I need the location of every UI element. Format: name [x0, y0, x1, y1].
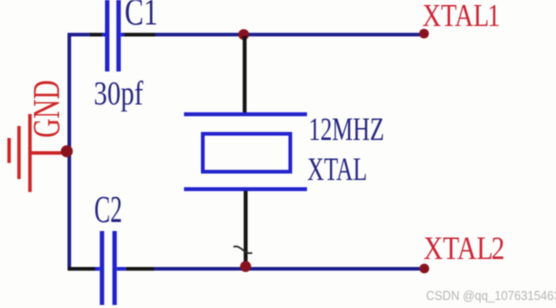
svg-text:12MHZ: 12MHZ: [309, 112, 385, 148]
capacitor C2 left plate: [100, 231, 104, 305]
ground symbol: short bar: [7, 138, 10, 163]
capacitor C1 left plate: [105, 0, 109, 72]
capacitor C2 right plate: [112, 231, 116, 305]
ground symbol: long bar: [28, 114, 32, 192]
pin stub blue right of C1 plate: [121, 33, 125, 37]
pin: C1 right pin (black): [125, 33, 156, 37]
svg-text:30pf: 30pf: [94, 74, 144, 112]
wire: top horizontal, corner to C1 left pin: [68, 33, 91, 37]
ground symbol: stem to wire: [29, 151, 67, 155]
pin stub blue left of C2 plate: [95, 267, 100, 271]
node: XTAL2 terminal dot: [419, 264, 429, 274]
crystal X1 bottom electrode plate: [184, 187, 307, 191]
pin stub blue right of C2 plate: [117, 267, 126, 271]
pin: C1 left pin (black): [90, 33, 103, 37]
pin: C2 right pin (black): [126, 267, 154, 271]
ground symbol: middle bar: [17, 126, 20, 179]
pin: crystal top pin (black): [243, 36, 247, 113]
wire: top horizontal run to XTAL1 terminal: [155, 33, 424, 37]
svg-text:GND: GND: [27, 80, 69, 138]
node: top junction dot: [238, 29, 249, 40]
node: ground junction dot: [61, 145, 73, 157]
node: XTAL1 terminal dot: [419, 29, 429, 39]
wire: bottom horizontal run to XTAL2 terminal: [154, 267, 424, 271]
svg-text:CSDN @qq_1076315463: CSDN @qq_1076315463: [426, 289, 556, 304]
svg-text:XTAL2: XTAL2: [424, 229, 505, 266]
capacitor C1 right plate: [116, 0, 120, 72]
no-ERC slash mark on crystal bottom pin: [234, 246, 253, 253]
node: bottom junction dot: [240, 261, 251, 272]
pin stub blue left of C1 plate: [102, 33, 106, 37]
pin: crystal bottom pin (black): [244, 191, 248, 267]
crystal X1 top electrode plate: [184, 112, 307, 116]
svg-text:C2: C2: [94, 188, 122, 230]
svg-text:XTAL1: XTAL1: [422, 0, 500, 33]
wire: left vertical bus from top wire to bottom wire: [68, 33, 72, 270]
svg-text:C1: C1: [125, 0, 158, 34]
crystal X1 body rectangle: [203, 134, 290, 172]
svg-text:XTAL: XTAL: [307, 152, 367, 188]
pin: C2 left pin (black): [68, 267, 95, 271]
